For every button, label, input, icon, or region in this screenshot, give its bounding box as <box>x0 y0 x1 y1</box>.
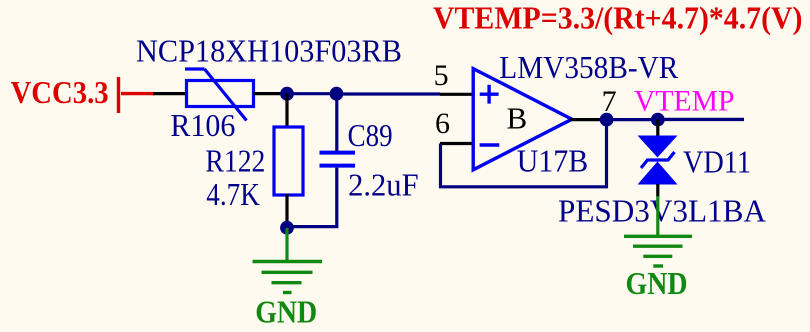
junction node B <box>330 87 344 101</box>
op-amp minus input mark <box>480 143 500 146</box>
wire VTEMP net to right <box>658 118 744 121</box>
svg-text:VCC3.3: VCC3.3 <box>11 75 109 110</box>
wire VCC3.3 red segment <box>121 92 155 95</box>
svg-text:B: B <box>507 100 528 135</box>
diode VD11 top triangle <box>638 136 678 158</box>
svg-text:2.2uF: 2.2uF <box>348 168 419 203</box>
svg-text:R106: R106 <box>170 108 235 143</box>
wire R122 top stub <box>285 94 288 128</box>
ground symbol left <box>253 262 323 293</box>
thermistor R106 strike diagonal <box>205 69 247 121</box>
pin 7 stub <box>570 118 607 121</box>
pin 5 stub <box>440 93 474 96</box>
svg-text:7: 7 <box>602 85 617 118</box>
thermistor R106 strike foot <box>185 67 205 70</box>
svg-text:C89: C89 <box>348 118 393 153</box>
wire node A to node B <box>287 92 337 95</box>
wire VD11 top stub <box>656 120 659 137</box>
wire R122 bottom stub <box>285 194 288 228</box>
wire ground stub right green <box>656 196 659 236</box>
svg-text:VTEMP=3.3/(Rt+4.7)*4.7(V): VTEMP=3.3/(Rt+4.7)*4.7(V) <box>433 1 803 36</box>
thermistor R106 body <box>187 81 254 107</box>
svg-text:NCP18XH103F03RB: NCP18XH103F03RB <box>136 34 402 69</box>
svg-text:LMV358B-VR: LMV358B-VR <box>499 50 678 85</box>
junction node C (ground node) <box>280 221 294 235</box>
diode VD11 bottom triangle <box>638 162 678 185</box>
svg-text:VD11: VD11 <box>683 144 751 179</box>
wire ground stub left <box>285 228 288 262</box>
wire node B to op-amp pin 5 <box>337 92 441 95</box>
svg-text:U17B: U17B <box>517 143 589 178</box>
svg-text:GND: GND <box>626 266 688 301</box>
resistor R122 body <box>274 127 303 195</box>
op-amp plus input mark <box>480 85 499 104</box>
wire to VD11 node <box>607 118 658 121</box>
wire to thermistor R106 <box>153 92 188 95</box>
junction node VD11 <box>651 113 665 127</box>
wire thermistor to node A <box>253 92 287 95</box>
capacitor C89 top plate <box>320 151 356 155</box>
wire C89 bottom L to ground node <box>288 168 337 227</box>
junction node A <box>280 87 294 101</box>
wire VD11 bottom stub black <box>656 184 659 197</box>
svg-text:4.7K: 4.7K <box>206 177 260 212</box>
op-amp U17B triangle <box>473 69 572 170</box>
svg-text:6: 6 <box>435 107 450 140</box>
wire C89 top stub <box>335 94 338 151</box>
svg-text:GND: GND <box>255 294 317 329</box>
wire feedback loop <box>441 120 607 187</box>
junction node VTEMP feedback <box>600 113 614 127</box>
capacitor C89 bottom plate <box>320 164 356 168</box>
diode VD11 zener bar <box>641 152 675 168</box>
pin 6 stub <box>440 142 474 145</box>
svg-text:VTEMP: VTEMP <box>634 86 735 118</box>
svg-text:PESD3V3L1BA: PESD3V3L1BA <box>558 194 766 229</box>
ground symbol right <box>624 236 692 266</box>
svg-text:R122: R122 <box>205 143 265 178</box>
node VCC3.3 port bar <box>117 77 120 113</box>
svg-text:5: 5 <box>434 59 449 92</box>
